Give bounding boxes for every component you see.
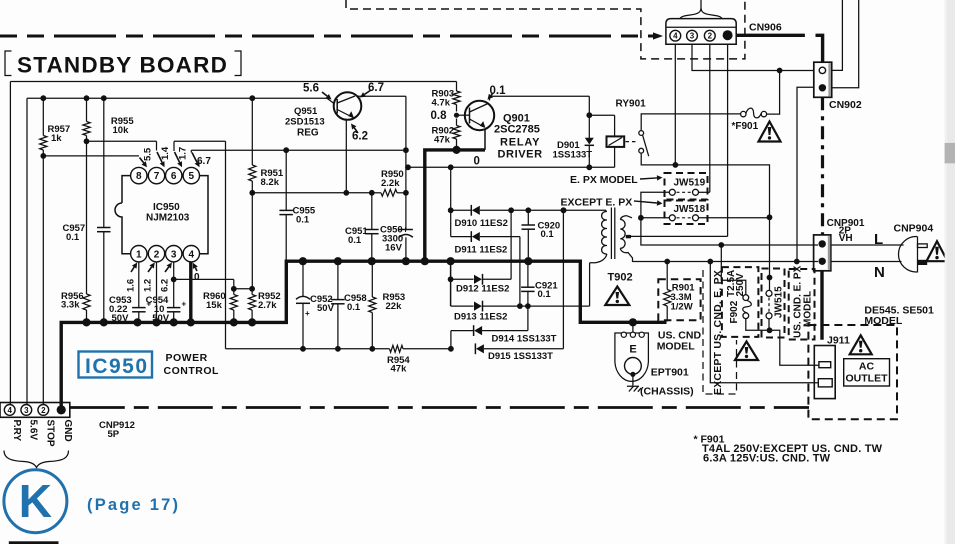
wire EPT stub — [632, 322, 634, 333]
svg-text:IC950: IC950 — [85, 355, 149, 378]
fuse F901 — [732, 108, 767, 132]
svg-text:2SC2785: 2SC2785 — [494, 124, 540, 136]
diode D901 1SS133T — [553, 138, 595, 168]
connector CNP901 2P VH — [814, 218, 865, 271]
connector CN902 — [814, 62, 862, 111]
svg-text:2: 2 — [41, 406, 46, 415]
board boundary dash-dot bottom — [70, 406, 809, 409]
node lower net dots — [300, 346, 306, 352]
svg-text:6.7: 6.7 — [197, 156, 211, 167]
svg-text:1k: 1k — [51, 133, 62, 144]
svg-text:47k: 47k — [434, 135, 451, 146]
diode D910 11ES2 — [451, 205, 564, 229]
svg-text:*F901: *F901 — [732, 121, 759, 132]
op-amp U IC950 NJM2103 body — [115, 176, 208, 254]
wire secondary tap run — [631, 235, 728, 237]
node CN906 pin4 junction — [673, 162, 679, 168]
dashed outline around CN906 — [346, 0, 745, 59]
svg-text:Q951: Q951 — [294, 106, 318, 117]
resistor R903 — [432, 82, 461, 112]
svg-text:1.2: 1.2 — [143, 279, 154, 292]
svg-text:1SS133T: 1SS133T — [553, 150, 593, 161]
svg-text:D912 11ES2: D912 11ES2 — [456, 284, 509, 295]
svg-text:STOP: STOP — [44, 420, 55, 447]
node JW515 bottom node — [767, 327, 773, 333]
svg-text:JW515: JW515 — [774, 286, 785, 318]
node page link K — [4, 470, 67, 533]
wire pin4 to gnd thick — [189, 262, 192, 322]
svg-text:T902: T902 — [608, 272, 633, 284]
node IC950 callout — [79, 352, 153, 378]
svg-text:K: K — [19, 475, 52, 527]
wire CN906 pin2 drop — [709, 44, 711, 192]
wire pin3 branch to R960 — [174, 278, 234, 280]
wire D913 branch thick — [450, 279, 452, 306]
node D901 top junction — [586, 112, 592, 118]
wire base link — [327, 98, 334, 103]
resistor R901 3.3M — [658, 262, 700, 322]
wire emitter — [345, 120, 347, 193]
wire D910 feed vertical — [450, 167, 452, 210]
wire D911 branch — [450, 210, 452, 236]
node F901 junction — [777, 68, 783, 74]
svg-text:5.5: 5.5 — [143, 147, 154, 161]
node D910 row left — [448, 207, 454, 213]
wire L to plug — [831, 244, 904, 246]
svg-text:0.1: 0.1 — [348, 235, 362, 246]
node R960 top — [231, 286, 237, 292]
warning triangle CNP904 — [927, 241, 948, 261]
svg-text:MODEL: MODEL — [864, 315, 903, 327]
connector CNP904 plug — [894, 223, 934, 272]
svg-text:2: 2 — [154, 249, 160, 260]
svg-text:OUTLET: OUTLET — [846, 373, 889, 385]
svg-text:1.4: 1.4 — [160, 146, 171, 160]
svg-text:0.1: 0.1 — [296, 215, 310, 226]
svg-text:STANDBY BOARD: STANDBY BOARD — [17, 53, 228, 78]
svg-text:MODEL: MODEL — [803, 291, 814, 327]
node JW515 node dot — [767, 275, 773, 281]
svg-text:0.1: 0.1 — [347, 302, 361, 313]
wire emitter rail — [252, 192, 372, 194]
resistor R954 — [387, 345, 451, 374]
svg-text:IC950: IC950 — [153, 202, 180, 213]
node bottom edge fragment — [9, 541, 59, 544]
wire 5.6V rail — [27, 97, 327, 99]
capacitor C955 — [279, 150, 316, 261]
jumper JW518 — [665, 201, 708, 225]
svg-text:2SD1513: 2SD1513 — [285, 117, 325, 128]
svg-text:6.3A 125V:US. CND. TW: 6.3A 125V:US. CND. TW — [703, 452, 831, 464]
svg-text:DRIVER: DRIVER — [498, 149, 543, 161]
wire CN906 pin1 thick AC — [736, 34, 805, 37]
svg-text:0.1: 0.1 — [541, 229, 555, 240]
wire N net — [633, 261, 819, 263]
node pin6 arrow 1.7 — [173, 141, 175, 151]
svg-text:6.7: 6.7 — [368, 82, 384, 94]
svg-text:8: 8 — [136, 171, 142, 182]
svg-text:2.2k: 2.2k — [381, 178, 400, 189]
node R950 column tap — [403, 147, 409, 153]
wire pin2 to gnd — [156, 262, 158, 322]
svg-text:4: 4 — [7, 406, 12, 415]
node pin5 arrow 6.7 — [192, 153, 197, 163]
transformer T902 — [590, 208, 633, 307]
node pin8 arrow 5.5 — [140, 158, 144, 163]
wire lower net — [226, 348, 390, 350]
svg-text:5.6: 5.6 — [303, 83, 319, 95]
node bus EPT junction — [629, 318, 637, 326]
svg-text:50V: 50V — [112, 313, 130, 324]
node R952 top — [249, 286, 255, 292]
wire pin1 to C953 — [138, 262, 140, 308]
svg-text:5P: 5P — [108, 429, 120, 440]
wire D915 to secondary node — [562, 210, 564, 348]
wire CNP901 to J911 thick — [820, 271, 823, 340]
svg-text:CONTROL: CONTROL — [164, 365, 219, 377]
resistor R950 — [373, 169, 406, 196]
wire pin7 line — [87, 140, 157, 142]
node DE545 dashed box — [808, 325, 897, 419]
pin 2 IC950 — [148, 246, 164, 262]
svg-text:5: 5 — [189, 171, 195, 182]
svg-text:F902: F902 — [729, 300, 740, 323]
warning triangle J911 — [850, 335, 872, 354]
node D910 row dots — [508, 207, 514, 213]
wire D911 out vertical — [519, 237, 521, 307]
svg-text:0: 0 — [194, 272, 200, 283]
fuse F902 — [722, 267, 759, 337]
resistor R956 — [61, 141, 90, 322]
node STOP junction — [40, 153, 46, 159]
warning triangle F902 — [735, 342, 758, 361]
svg-text:AC: AC — [859, 361, 875, 373]
diode D913 11ES2 — [451, 301, 590, 323]
svg-text:2.7k: 2.7k — [258, 300, 277, 311]
svg-text:4: 4 — [189, 249, 195, 260]
node R955 junction — [84, 138, 90, 144]
pin 6 IC950 — [166, 167, 182, 183]
pin 8 IC950 — [131, 167, 147, 183]
node N junctions — [664, 259, 670, 265]
wire D914 left branch — [450, 331, 452, 349]
wire switch lower terminal — [641, 153, 769, 217]
title STANDBY BOARD — [5, 51, 241, 78]
wire to J911 pin1 — [770, 330, 819, 365]
node AC OUTLET label — [844, 359, 890, 386]
transistor Q901 2SC2785 — [465, 101, 543, 161]
wire JW519 right to pin2 — [699, 191, 710, 193]
node D913 row dots — [517, 303, 523, 309]
svg-text:2: 2 — [708, 32, 713, 41]
relay RY901 coil — [607, 99, 647, 147]
diode D911 11ES2 — [451, 231, 520, 255]
switch RY901 contacts — [639, 131, 649, 157]
svg-text:CN902: CN902 — [829, 99, 862, 111]
svg-text:47k: 47k — [391, 364, 408, 375]
svg-text:VH: VH — [839, 233, 853, 244]
wire L net — [641, 218, 818, 245]
wire R960-R952 link — [234, 288, 252, 290]
svg-text:N: N — [874, 264, 885, 281]
node brace — [4, 451, 69, 468]
svg-text:50V: 50V — [152, 313, 170, 324]
resistor R951 — [249, 98, 284, 289]
capacitor C952 — [296, 261, 335, 349]
svg-text:0: 0 — [474, 156, 480, 168]
svg-text:(Page 17): (Page 17) — [87, 496, 180, 514]
wire CN902 pin2 to N — [797, 87, 814, 261]
wire pin8 line — [43, 155, 139, 157]
node D915 row dot — [448, 346, 454, 352]
node D901 bottom junction — [586, 164, 592, 170]
wire CN902 pin1 right — [832, 0, 843, 70]
capacitor C953 — [109, 295, 152, 324]
capacitor C921 — [521, 261, 558, 306]
warning triangle F901 — [759, 122, 781, 142]
diode D914 1SS133T — [451, 306, 557, 344]
node C955 tap — [283, 147, 289, 153]
wire pin3 to C954 — [173, 262, 175, 308]
svg-text:50V: 50V — [317, 303, 335, 314]
capacitor C951 — [345, 193, 379, 261]
wire JW518 left feed — [641, 217, 669, 219]
resistor R957 — [40, 98, 71, 156]
node jumper node dot — [767, 214, 773, 220]
svg-text:6.2: 6.2 — [160, 279, 171, 292]
wire pin6 net — [174, 140, 226, 142]
svg-text:EPT901: EPT901 — [651, 367, 689, 379]
pin 1 IC950 — [131, 246, 147, 262]
resistor R955 — [83, 98, 134, 141]
wire Q901 collector — [489, 96, 491, 100]
wire JW519 left feed — [641, 192, 669, 218]
node pin1 arrow 1.6 — [131, 267, 134, 272]
wire F902 top lead — [721, 245, 746, 295]
wire relay coil top — [589, 114, 614, 116]
wire coil-switch dashes — [626, 141, 639, 143]
wire Q901 emitter thick — [484, 129, 486, 150]
pin 7 IC950 — [148, 167, 164, 183]
wire pin5 net — [191, 149, 406, 151]
svg-text:16V: 16V — [385, 243, 403, 254]
svg-text:5.6V: 5.6V — [27, 420, 38, 441]
svg-text:CN906: CN906 — [749, 22, 782, 34]
capacitor C920 — [522, 210, 561, 261]
node F902-L junction — [718, 242, 724, 248]
node rail dots — [40, 95, 46, 101]
node label US CND E PX MODEL box — [789, 265, 815, 339]
svg-text:NJM2103: NJM2103 — [146, 213, 190, 224]
svg-text:+: + — [305, 309, 310, 318]
svg-text:L: L — [874, 231, 883, 248]
node EXCEPT US CND dashed border — [703, 270, 737, 394]
wire D910 cathode to D912 vertical — [510, 210, 512, 279]
svg-text:RELAY: RELAY — [500, 137, 540, 149]
capacitor C958 — [331, 261, 367, 349]
node y167 taps — [405, 164, 411, 170]
svg-text:CNP904: CNP904 — [894, 223, 934, 235]
svg-text:(CHASSIS): (CHASSIS) — [640, 386, 694, 398]
svg-text:D913 11ES2: D913 11ES2 — [454, 312, 507, 323]
wire F902 bottom lead — [746, 319, 770, 331]
wire CN906 pin3 drop — [692, 44, 814, 70]
node pin2 arrow 1.2 — [148, 267, 152, 272]
wire CN906 pin1 drop — [727, 44, 729, 236]
wire JW515 top lead — [769, 217, 771, 290]
svg-text:22k: 22k — [386, 301, 403, 312]
wire P.RY vertical — [9, 82, 11, 405]
pin 4 IC950 — [183, 246, 199, 262]
wire CN906 pin4 drop — [674, 44, 676, 165]
svg-text:EXCEPT E. PX: EXCEPT E. PX — [561, 197, 633, 209]
resistor R960 — [203, 289, 237, 323]
svg-text:1.7: 1.7 — [178, 147, 189, 160]
resistor R902 — [432, 119, 461, 150]
board boundary dash-dot CN902-CNP901 — [821, 97, 824, 235]
wire N to plug — [831, 261, 902, 263]
node bus junctions lower — [82, 318, 90, 326]
capacitor C950 — [380, 193, 413, 261]
svg-text:+: + — [182, 300, 187, 309]
node CN906 brace — [680, 0, 722, 19]
wire ground bus — [61, 261, 666, 405]
svg-text:3: 3 — [690, 32, 695, 41]
transformer EPT901 — [615, 332, 689, 386]
svg-text:D915 1SS133T: D915 1SS133T — [488, 351, 553, 362]
wire EXCEPT EPX feed — [564, 209, 607, 211]
resistor R952 — [249, 289, 281, 323]
svg-text:JW518: JW518 — [674, 204, 706, 215]
capacitor C954 — [146, 295, 187, 324]
svg-text:3: 3 — [24, 406, 29, 415]
svg-text:1: 1 — [136, 249, 142, 260]
node D912 row left — [448, 276, 454, 282]
svg-text:P.RY: P.RY — [11, 420, 22, 442]
wire CN902 pin2 right — [832, 0, 859, 88]
wire P.RY rail top — [10, 81, 456, 83]
svg-text:D910 11ES2: D910 11ES2 — [455, 218, 508, 229]
svg-text:1.6: 1.6 — [126, 279, 137, 292]
svg-text:4.7k: 4.7k — [432, 98, 451, 109]
svg-text:250V: 250V — [735, 273, 746, 297]
svg-text:E. PX MODEL: E. PX MODEL — [570, 174, 638, 186]
diode D912 11ES2 — [451, 274, 512, 295]
svg-text:6: 6 — [171, 171, 177, 182]
wire JW515 bottom lead — [768, 319, 770, 330]
connector CN906 — [666, 19, 782, 45]
warning triangle T902 — [605, 287, 629, 306]
svg-text:1/2W: 1/2W — [671, 302, 693, 313]
node pin4 arrow 0 — [195, 268, 197, 271]
wire emitter ground run thick — [425, 150, 485, 261]
node EXCEPT EPX junction — [561, 207, 567, 213]
wire collector — [357, 95, 406, 97]
ground chassis — [627, 386, 694, 398]
svg-text:D911 11ES2: D911 11ES2 — [455, 244, 508, 255]
svg-text:0.1: 0.1 — [538, 289, 552, 300]
wire base link Q901 — [457, 114, 470, 116]
node bus junctions upper — [299, 257, 307, 265]
jumper JW519 — [665, 173, 708, 200]
node pin3 arrow 6.2 — [165, 267, 169, 272]
connector J911 — [814, 335, 850, 399]
resistor R953 — [369, 261, 406, 349]
connector CNP912 5P — [0, 403, 135, 441]
board boundary dash-dot top — [0, 35, 655, 38]
jumper JW515 — [762, 269, 785, 338]
svg-text:RY901: RY901 — [616, 99, 647, 110]
svg-text:POWER: POWER — [166, 352, 208, 364]
svg-text:3.3k: 3.3k — [61, 300, 80, 311]
svg-text:7: 7 — [154, 171, 160, 182]
wire to J911 pin2 — [710, 262, 818, 383]
svg-text:0.8: 0.8 — [431, 110, 448, 122]
node pin7 arrow 1.4 — [157, 152, 162, 162]
svg-text:4: 4 — [673, 32, 678, 41]
capacitor C957 — [63, 98, 111, 322]
wire D912 gnd stub — [450, 261, 452, 279]
wire 5.6V vertical — [26, 98, 28, 404]
diode D915 1SS133T — [475, 343, 563, 362]
svg-text:6.2: 6.2 — [352, 131, 368, 143]
svg-text:E: E — [629, 344, 636, 356]
wire relay coil bottom — [614, 147, 616, 167]
svg-text:10k: 10k — [113, 125, 130, 136]
svg-text:8.2k: 8.2k — [261, 177, 280, 188]
transistor Q951 2SD1513 — [285, 92, 361, 138]
scrollbar strip — [945, 0, 955, 544]
svg-text:MODEL: MODEL — [657, 340, 696, 352]
svg-text:0.1: 0.1 — [66, 232, 80, 243]
svg-text:15k: 15k — [206, 300, 223, 311]
wire JW518 right to node — [699, 217, 770, 219]
node R902 gnd junction — [452, 146, 460, 154]
svg-text:GND: GND — [62, 420, 73, 442]
node emitter rail junctions — [249, 190, 255, 196]
node pin3 junction — [171, 277, 177, 283]
svg-text:D914 1SS133T: D914 1SS133T — [492, 334, 557, 345]
wire STOP vertical — [42, 156, 44, 405]
svg-text:3: 3 — [171, 249, 177, 260]
pin 3 IC950 — [166, 246, 182, 262]
wire switch upper terminal — [641, 114, 741, 131]
svg-text:REG: REG — [297, 128, 319, 139]
node secondary top junction — [638, 215, 644, 221]
wire F901 to CN902 net — [767, 71, 780, 115]
svg-text:JW519: JW519 — [674, 178, 706, 189]
svg-text:J911: J911 — [827, 335, 850, 347]
wire y167 run — [406, 166, 589, 168]
pin 5 IC950 — [183, 167, 199, 183]
